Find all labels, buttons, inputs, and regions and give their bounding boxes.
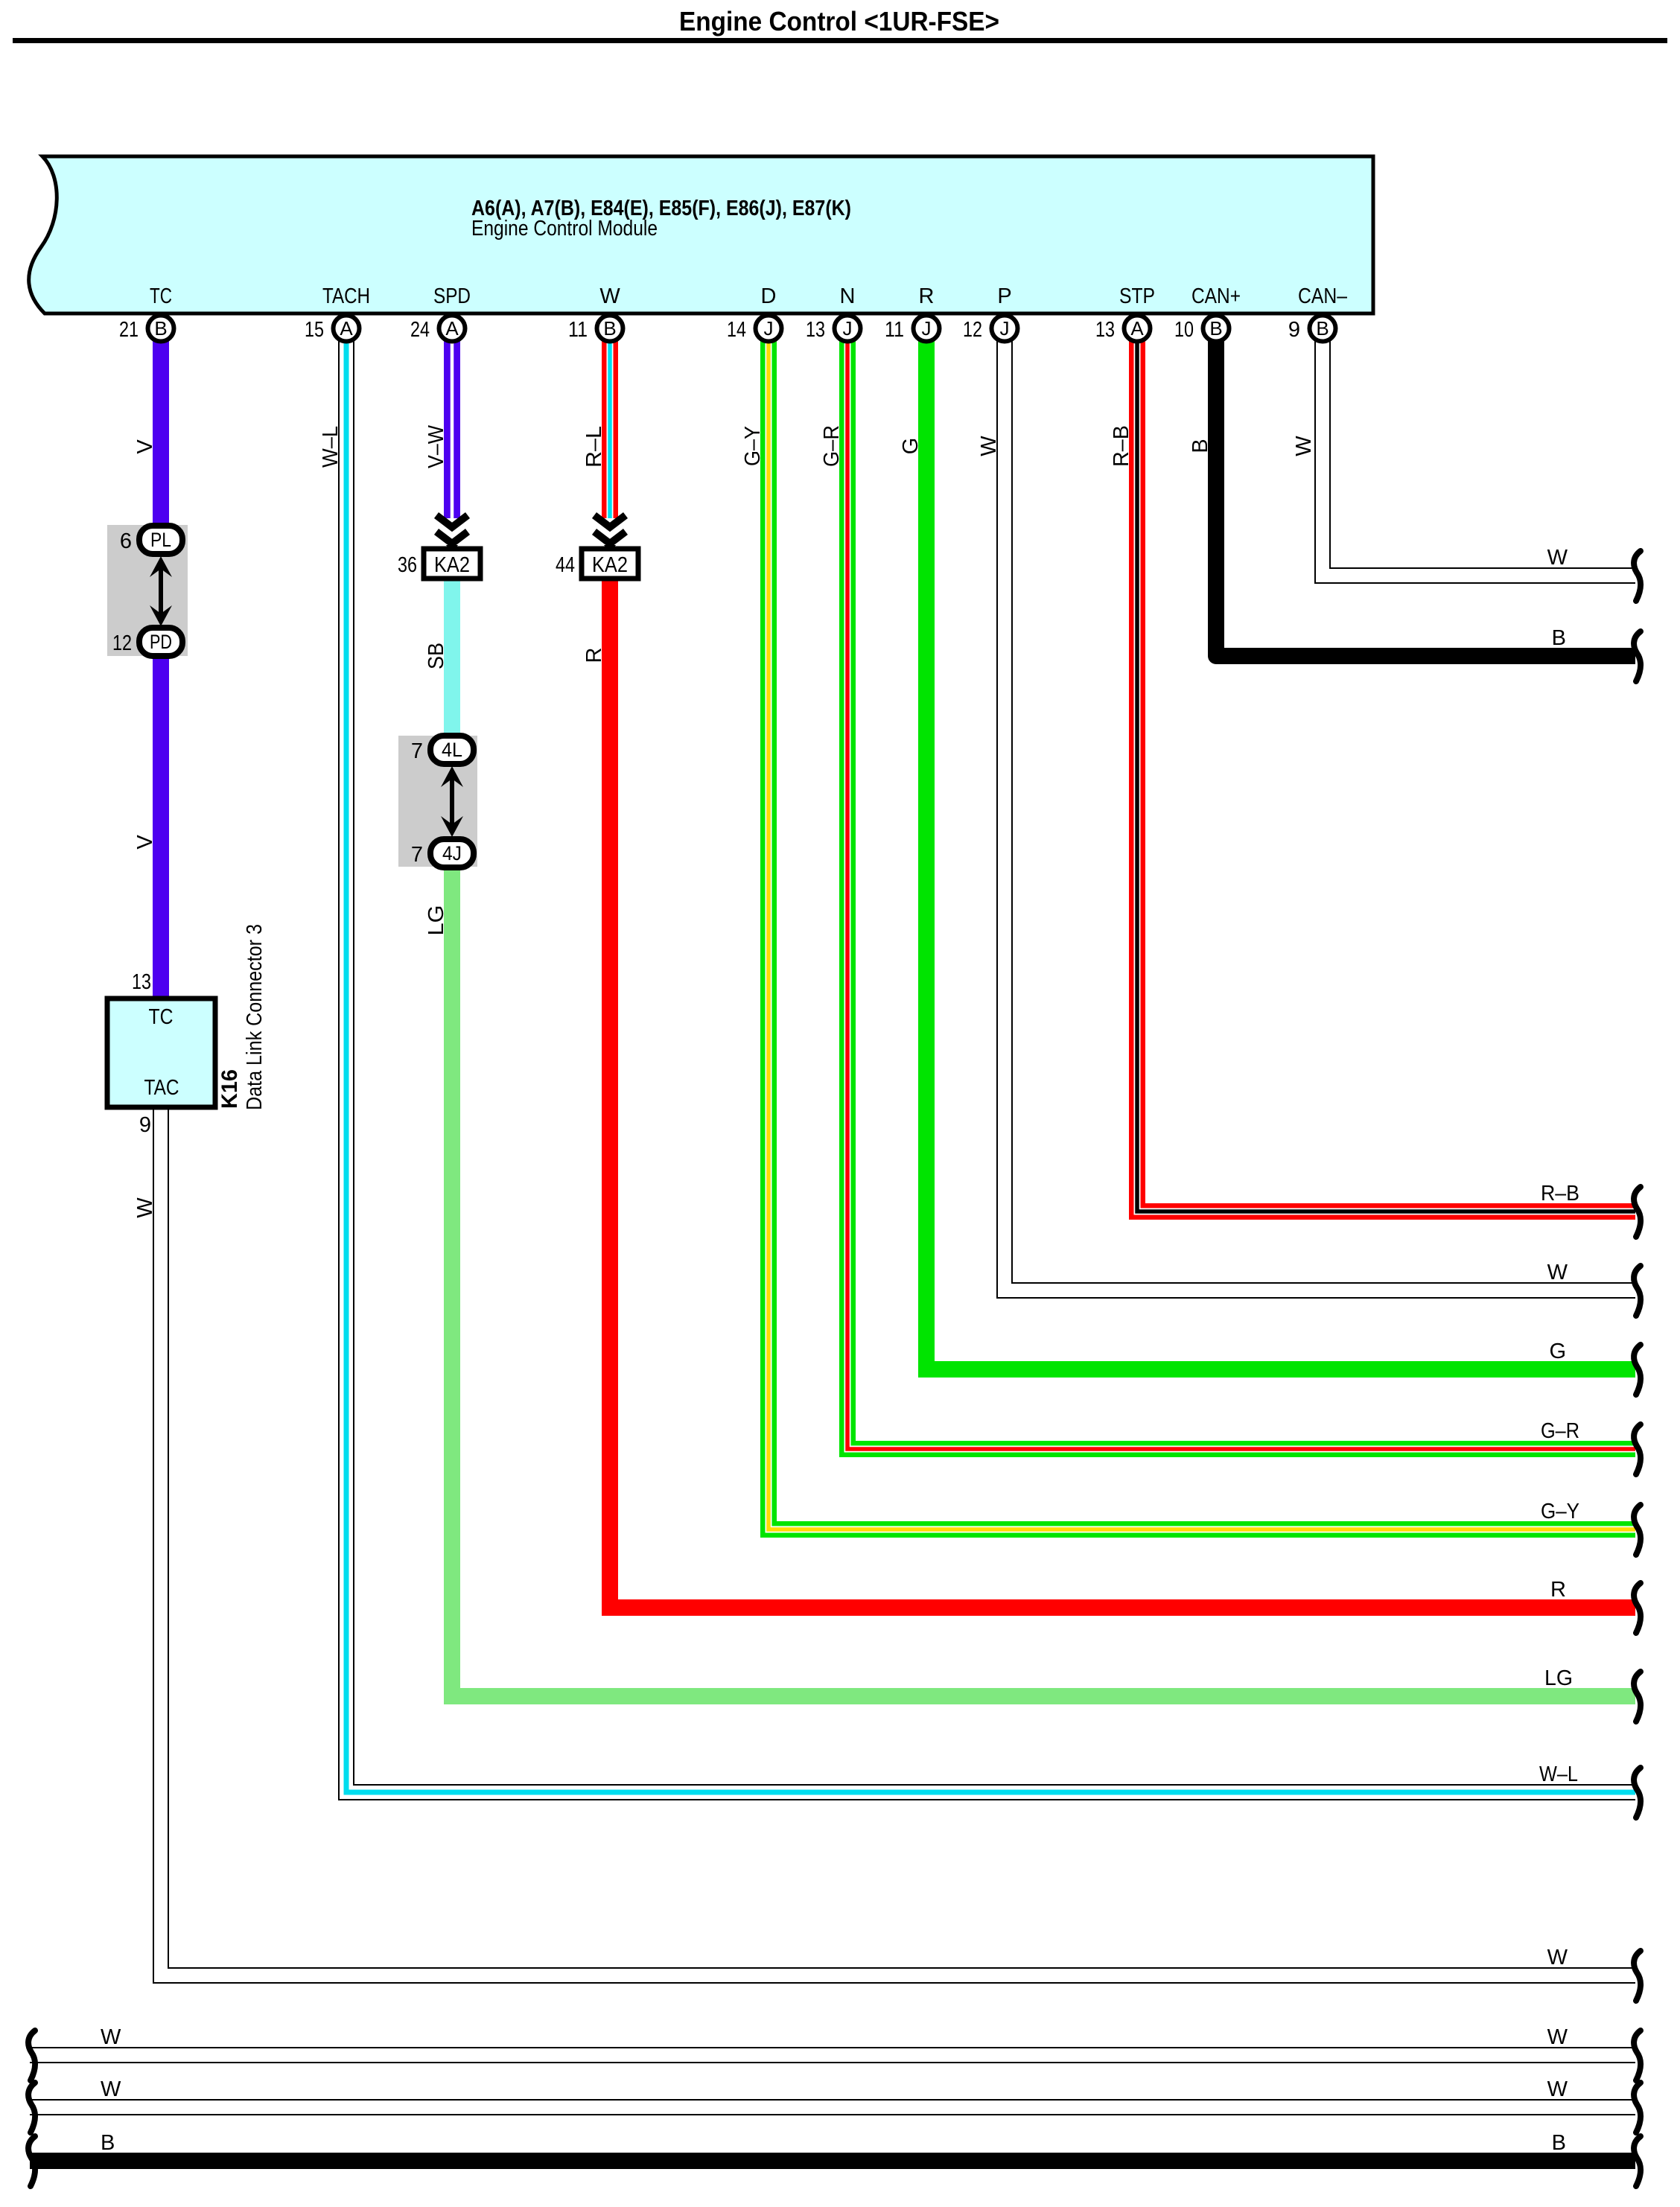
- wire SB from KA2-36 to shield 4L: [444, 577, 460, 737]
- continuation mark right B: [1634, 631, 1641, 681]
- svg-text:Data Link Connector 3: Data Link Connector 3: [243, 924, 267, 1110]
- continuation mark left W bus: [28, 2083, 35, 2133]
- svg-text:SB: SB: [424, 643, 448, 669]
- wire G-Y from D pin to right edge: [769, 341, 1635, 1529]
- wire W from CAN- pin to right edge: [1323, 341, 1635, 576]
- svg-text:TC: TC: [149, 1005, 174, 1029]
- svg-text:N: N: [840, 284, 856, 308]
- svg-text:W: W: [1547, 1946, 1568, 1969]
- svg-text:14: 14: [727, 318, 746, 342]
- svg-text:9: 9: [139, 1113, 151, 1137]
- svg-text:P: P: [997, 284, 1011, 308]
- svg-text:11: 11: [885, 318, 904, 342]
- continuation mark right W: [1634, 551, 1641, 601]
- svg-text:J: J: [764, 317, 774, 340]
- svg-text:B: B: [154, 317, 167, 340]
- svg-text:A: A: [1130, 317, 1144, 340]
- svg-text:LG: LG: [424, 905, 448, 936]
- continuation mark right G-Y: [1634, 1505, 1641, 1555]
- wire W from P pin to right edge: [1005, 341, 1635, 1290]
- svg-text:W–L: W–L: [319, 426, 343, 468]
- svg-text:J: J: [843, 317, 853, 340]
- svg-text:B: B: [603, 317, 616, 340]
- svg-text:KA2: KA2: [592, 553, 628, 577]
- continuation mark right W bus: [1634, 2031, 1641, 2080]
- svg-text:13: 13: [806, 318, 825, 342]
- continuation mark right G: [1634, 1345, 1641, 1395]
- svg-text:W: W: [1547, 2025, 1568, 2049]
- svg-text:12: 12: [963, 318, 982, 342]
- wire G from R pin to right edge: [926, 341, 1635, 1369]
- shield box for 4L/4J: [398, 736, 477, 867]
- bus wire W upper full width: [30, 2047, 1635, 2063]
- svg-text:A: A: [445, 317, 459, 340]
- wire V from PD to DLC3 K16: [153, 655, 169, 1001]
- svg-text:V–W: V–W: [424, 424, 448, 468]
- wire R-B from STP pin to right edge: [1137, 341, 1635, 1211]
- svg-text:24: 24: [410, 318, 430, 342]
- svg-text:W: W: [977, 436, 1001, 456]
- title rule: [13, 38, 1667, 43]
- svg-text:B: B: [101, 2131, 115, 2155]
- wire V from ECM TC pin 21: [153, 341, 169, 527]
- svg-text:R–B: R–B: [1541, 1182, 1579, 1206]
- svg-text:R–L: R–L: [582, 426, 606, 468]
- svg-text:STP: STP: [1119, 284, 1155, 308]
- svg-text:D: D: [761, 284, 777, 308]
- wire R from KA2-44 to right edge: [610, 576, 1635, 1608]
- shield arrow 4L-4J: [450, 778, 454, 825]
- shield arrow PL-PD: [159, 568, 163, 614]
- continuation mark right W bus: [1634, 2083, 1641, 2133]
- continuation mark right W-L: [1634, 1768, 1641, 1818]
- svg-text:W: W: [101, 2025, 121, 2049]
- svg-text:J: J: [1000, 317, 1010, 340]
- svg-text:G: G: [899, 438, 923, 455]
- svg-text:PD: PD: [150, 631, 172, 653]
- svg-text:R: R: [582, 648, 606, 663]
- svg-text:7: 7: [411, 739, 423, 763]
- svg-text:15: 15: [305, 318, 324, 342]
- chevron arrows into KA2-36: [436, 515, 468, 527]
- svg-text:4J: 4J: [442, 842, 462, 864]
- svg-text:21: 21: [119, 318, 139, 342]
- svg-text:W: W: [1547, 546, 1568, 570]
- svg-text:36: 36: [398, 553, 417, 577]
- svg-text:A: A: [340, 317, 353, 340]
- wire V-W from SPD pin: [444, 341, 460, 518]
- svg-text:W: W: [599, 284, 620, 308]
- svg-text:CAN+: CAN+: [1191, 284, 1241, 308]
- svg-text:B: B: [1209, 317, 1222, 340]
- svg-text:TAC: TAC: [144, 1076, 179, 1100]
- svg-text:V: V: [133, 439, 157, 454]
- svg-text:W: W: [101, 2077, 121, 2101]
- svg-text:B: B: [1316, 317, 1329, 340]
- svg-text:Engine Control Module: Engine Control Module: [471, 217, 658, 241]
- svg-text:B: B: [1552, 626, 1566, 650]
- svg-text:R: R: [919, 284, 935, 308]
- wire G-R from N pin to right edge: [847, 341, 1635, 1449]
- continuation mark left W bus: [28, 2031, 35, 2080]
- bus wire W lower full width: [30, 2099, 1635, 2115]
- continuation mark right B bus: [1634, 2136, 1641, 2186]
- svg-text:R: R: [1550, 1578, 1566, 1602]
- svg-text:10: 10: [1174, 318, 1194, 342]
- wire W from K16 pin 9 to right edge: [161, 1105, 1635, 1975]
- svg-text:B: B: [1189, 439, 1212, 453]
- splice box KA2 pin 36: [424, 549, 480, 579]
- wire LG from shield 4J to right edge: [452, 865, 1635, 1696]
- wire R-L from W pin: [602, 341, 618, 518]
- svg-text:13: 13: [1095, 318, 1115, 342]
- svg-text:W–L: W–L: [1539, 1762, 1578, 1786]
- junction oval PL pin 6: [139, 526, 182, 554]
- svg-text:R–B: R–B: [1110, 425, 1133, 467]
- svg-text:G–Y: G–Y: [1541, 1500, 1579, 1523]
- svg-text:G: G: [1549, 1340, 1566, 1363]
- svg-text:9: 9: [1288, 318, 1300, 342]
- connector K16 box: [107, 999, 215, 1107]
- svg-text:KA2: KA2: [434, 553, 470, 577]
- continuation mark left B bus: [28, 2136, 35, 2186]
- svg-text:TACH: TACH: [322, 284, 370, 308]
- svg-text:SPD: SPD: [433, 284, 471, 308]
- svg-text:44: 44: [556, 553, 575, 577]
- svg-text:6: 6: [120, 529, 132, 553]
- svg-text:7: 7: [411, 843, 423, 867]
- junction oval 4J pin 7: [430, 839, 474, 867]
- bus wire B full width: [30, 2153, 1635, 2169]
- svg-text:B: B: [1552, 2131, 1566, 2155]
- chevron arrows into KA2-44: [594, 515, 626, 527]
- continuation mark right LG: [1634, 1672, 1641, 1722]
- svg-text:PL: PL: [150, 529, 171, 551]
- svg-text:W: W: [1292, 436, 1316, 456]
- continuation mark right G-R: [1634, 1424, 1641, 1474]
- svg-text:W: W: [1547, 2077, 1568, 2101]
- svg-text:12: 12: [112, 631, 132, 655]
- svg-text:4L: 4L: [442, 739, 462, 761]
- continuation mark right R: [1634, 1583, 1641, 1633]
- svg-text:LG: LG: [1544, 1666, 1573, 1690]
- ECM module box A6/A7/E84/E85/E86/E87: [29, 156, 1373, 313]
- svg-text:G–R: G–R: [820, 425, 844, 467]
- wire B from CAN+ pin to right edge: [1216, 341, 1635, 656]
- svg-text:CAN–: CAN–: [1298, 284, 1348, 308]
- svg-text:K16: K16: [217, 1069, 242, 1109]
- svg-text:11: 11: [568, 318, 588, 342]
- svg-text:G–Y: G–Y: [741, 426, 765, 466]
- continuation mark right W: [1634, 1266, 1641, 1316]
- svg-text:W: W: [133, 1197, 157, 1218]
- svg-text:G–R: G–R: [1541, 1419, 1579, 1443]
- junction oval PD pin 12: [139, 628, 182, 656]
- svg-text:13: 13: [132, 970, 151, 994]
- continuation mark right R-B: [1634, 1187, 1641, 1237]
- svg-text:TC: TC: [150, 284, 172, 308]
- shield box for PL/PD: [107, 525, 188, 656]
- svg-text:W: W: [1547, 1261, 1568, 1284]
- wire W-L from TACH pin to right edge: [346, 341, 1635, 1792]
- svg-text:J: J: [922, 317, 932, 340]
- svg-text:Engine Control <1UR-FSE>: Engine Control <1UR-FSE>: [679, 6, 999, 36]
- splice box KA2 pin 44: [582, 549, 638, 579]
- continuation mark right W: [1634, 1951, 1641, 2001]
- junction oval 4L pin 7: [430, 736, 474, 764]
- svg-text:V: V: [133, 835, 157, 850]
